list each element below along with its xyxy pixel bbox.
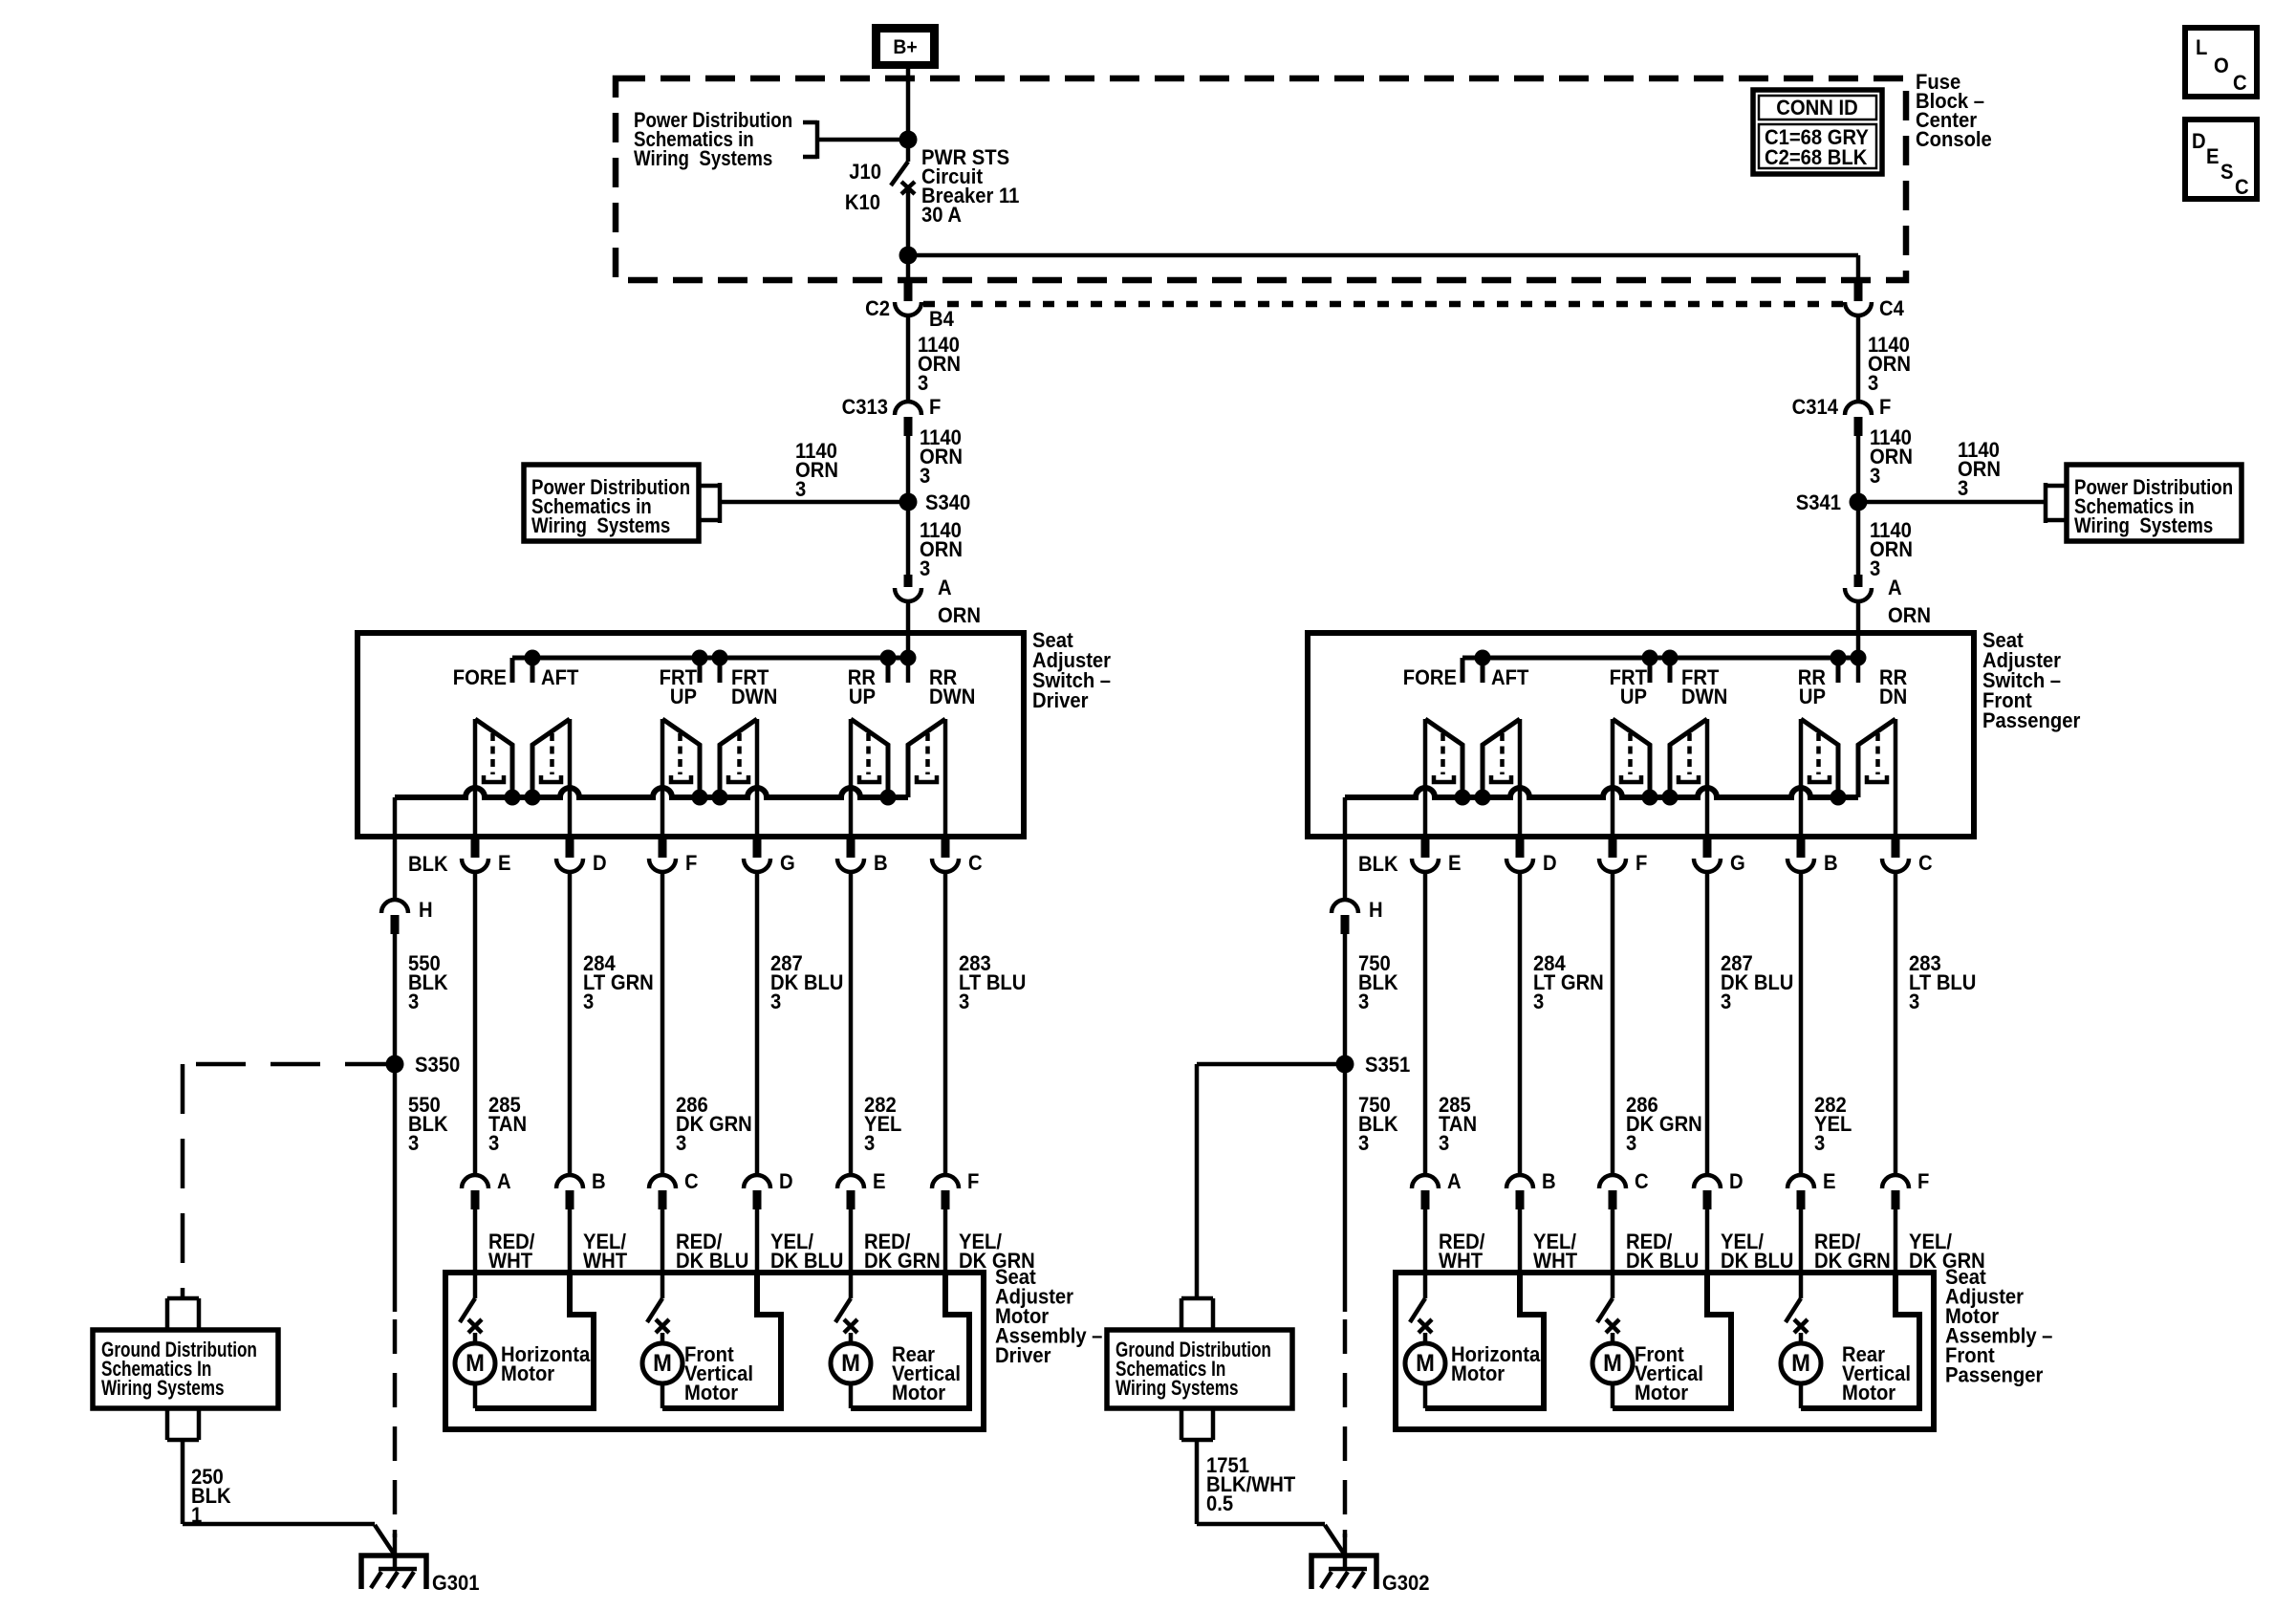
svg-text:0.5: 0.5 bbox=[1206, 1492, 1233, 1515]
svg-text:C313: C313 bbox=[842, 396, 888, 419]
svg-text:DN: DN bbox=[1879, 686, 1907, 708]
svg-text:3: 3 bbox=[408, 991, 419, 1013]
svg-text:3: 3 bbox=[1958, 477, 1968, 500]
svg-text:Wiring Systems: Wiring Systems bbox=[634, 148, 772, 171]
svg-text:Passenger: Passenger bbox=[1982, 709, 2080, 732]
svg-text:C2: C2 bbox=[865, 297, 890, 320]
svg-text:D: D bbox=[2192, 130, 2206, 153]
svg-text:C: C bbox=[2233, 72, 2247, 95]
svg-text:S341: S341 bbox=[1796, 491, 1841, 514]
svg-text:K10: K10 bbox=[845, 191, 880, 214]
svg-text:1: 1 bbox=[191, 1504, 202, 1527]
svg-text:Wiring Systems: Wiring Systems bbox=[531, 515, 670, 538]
svg-text:G302: G302 bbox=[1382, 1572, 1429, 1595]
svg-text:3: 3 bbox=[1358, 991, 1369, 1013]
svg-text:E: E bbox=[2206, 145, 2219, 168]
svg-text:S350: S350 bbox=[415, 1054, 460, 1077]
svg-text:S351: S351 bbox=[1365, 1054, 1410, 1077]
svg-text:3: 3 bbox=[1358, 1132, 1369, 1155]
svg-text:S340: S340 bbox=[925, 491, 970, 514]
svg-text:F: F bbox=[929, 396, 941, 419]
svg-text:S: S bbox=[2220, 161, 2233, 184]
svg-text:30 A: 30 A bbox=[921, 204, 962, 227]
svg-text:B+: B+ bbox=[893, 36, 917, 58]
svg-text:Wiring Systems: Wiring Systems bbox=[2074, 515, 2213, 538]
svg-text:G301: G301 bbox=[432, 1572, 480, 1595]
svg-text:C314: C314 bbox=[1792, 396, 1839, 419]
svg-text:DWN: DWN bbox=[929, 686, 975, 708]
svg-text:F: F bbox=[1879, 396, 1891, 419]
svg-text:B4: B4 bbox=[929, 308, 954, 331]
svg-text:L: L bbox=[2196, 36, 2207, 59]
svg-text:C4: C4 bbox=[1879, 297, 1904, 320]
svg-text:Passenger: Passenger bbox=[1945, 1364, 2043, 1387]
svg-text:3: 3 bbox=[408, 1132, 419, 1155]
svg-text:Driver: Driver bbox=[1032, 689, 1088, 712]
svg-text:J10: J10 bbox=[849, 161, 881, 184]
svg-text:O: O bbox=[2214, 54, 2229, 77]
svg-text:Console: Console bbox=[1916, 128, 1992, 151]
svg-text:C: C bbox=[2235, 176, 2249, 199]
svg-text:C2=68 BLK: C2=68 BLK bbox=[1765, 146, 1868, 169]
svg-text:Driver: Driver bbox=[995, 1344, 1051, 1367]
svg-text:3: 3 bbox=[795, 478, 806, 501]
svg-text:CONN ID: CONN ID bbox=[1776, 97, 1857, 120]
